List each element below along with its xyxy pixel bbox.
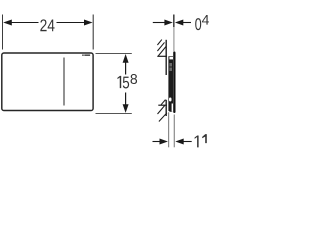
dim 15.8 line upper segment [125, 62, 127, 75]
dim 0.4 extension line lower grey part [173, 27, 175, 52]
dim 0.4 right line [183, 22, 191, 24]
wall bottom stub face line [165, 100, 167, 116]
dim 24 right arrow [84, 20, 93, 26]
dim 1.1 left line [153, 141, 161, 143]
dim 0.4 left arrow [164, 20, 172, 26]
dim 24 line left segment [11, 22, 39, 24]
dim 0.4 label [195, 18, 201, 30]
side view mounting frame bar [168, 56, 173, 112]
dim 15.8 bottom arrow [123, 104, 129, 113]
wall bottom hatch line 1 [161, 100, 166, 105]
dim 24 line right segment [57, 22, 85, 24]
side view plate profile [173, 52, 175, 114]
logo geberit wordmark [82, 55, 84, 56]
dim 15.8 top arrow [123, 54, 129, 63]
dim 15.8 top extension line [96, 53, 132, 55]
dim 24 left arrow [3, 20, 12, 26]
dim 24 right extension line [92, 15, 94, 50]
wall top hatch line 2 [157, 42, 164, 51]
wall top hatch line 1 [157, 40, 161, 45]
frame grey block [169, 63, 172, 71]
dim 1.1 left extension line [168, 112, 170, 147]
dim 1.1 right line [183, 141, 191, 143]
wall bottom hatch line 2 [158, 105, 165, 114]
wall top stub cut line [157, 55, 167, 57]
plate front view outline [2, 53, 93, 111]
plate button divider line [63, 58, 65, 106]
frame grey block divider [169, 66, 172, 68]
dim 0.4 right arrow [175, 20, 183, 26]
wall top hatch line 3 [158, 47, 166, 57]
dim 15.8 label [117, 76, 129, 89]
frame bottom separation slot [172, 104, 174, 112]
wall bottom stub cut line [158, 104, 167, 106]
dim 0.4 left line [153, 22, 165, 24]
dim 15.8 bottom extension line [96, 113, 132, 115]
dim 24 label [40, 19, 54, 31]
dim 15.8 line lower segment [125, 93, 127, 106]
dim 24 left extension line [2, 15, 4, 50]
dim 1.1 right arrow [175, 139, 183, 145]
dim 0.4 extension line (merged pair) [173, 15, 175, 28]
wall bottom hatch line 3 [159, 113, 167, 122]
wall top stub face line [165, 40, 167, 75]
dim 1.1 left arrow [160, 139, 168, 145]
dim 1.1 right extension line [173, 115, 175, 148]
frame white slot bottom [169, 98, 172, 102]
frame white slot top [169, 57, 173, 60]
dim 1.1 label [195, 136, 199, 148]
